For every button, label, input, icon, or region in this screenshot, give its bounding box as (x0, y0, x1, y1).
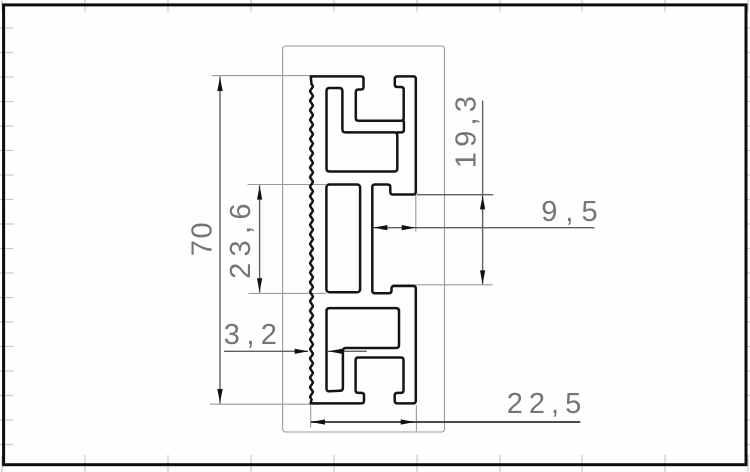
dimension 22,5 extension line right (415, 405, 417, 431)
dimension 22,5 arrow left (311, 419, 325, 424)
profile lower chamber cavity (327, 308, 400, 391)
dimension 3,2 line left part (224, 350, 308, 352)
svg-text:23,6: 23,6 (225, 197, 257, 279)
dimension 19,3 arrow down (480, 270, 485, 284)
dimension 19,3 arrow up (480, 196, 485, 210)
dimension 19,3 line (482, 101, 484, 285)
dimension 23,6 line (259, 185, 261, 293)
dimension 23,6 extension line bottom (249, 292, 327, 294)
svg-text:3,2: 3,2 (224, 319, 284, 351)
spreadsheet grid ticks (decorative) (1, 0, 3, 12)
dimension 9,5 line (373, 227, 594, 229)
svg-text:19,3: 19,3 (451, 91, 483, 168)
dimension 19,3 extension line bottom (392, 284, 493, 286)
dimension 23,6 arrow up (257, 186, 262, 200)
svg-text:22,5: 22,5 (507, 388, 587, 420)
dimension 3,2 arrow left (328, 349, 342, 354)
dimension 70 arrow down (217, 389, 222, 403)
profile upper chamber stub (397, 122, 404, 133)
dimension 70 arrow up (217, 77, 222, 91)
dimension 23,6 arrow down (257, 278, 262, 292)
dimension 3,2 line right part (328, 350, 367, 352)
figure bounding box (283, 46, 445, 432)
dimension 23,6 extension line top (248, 184, 327, 186)
profile middle slot cavity (326, 185, 360, 293)
dimension 70 extension line bottom (210, 403, 319, 405)
svg-text:70: 70 (187, 221, 219, 256)
dimension 9,5 arrow left (374, 225, 388, 230)
dimension 70 extension line top (212, 75, 311, 77)
dimension 22,5 line (311, 421, 580, 423)
dimension 3,2 arrow right (295, 349, 309, 354)
dimension 22,5 arrow right (401, 419, 415, 424)
profile upper chamber cavity (327, 88, 398, 172)
dimension 9,5 arrow right (402, 225, 416, 230)
svg-text:9,5: 9,5 (541, 196, 605, 228)
dimension 19,3 extension line top (417, 194, 493, 196)
dimension 9,5 extension line (415, 195, 417, 232)
dimension 70 line (219, 77, 221, 404)
profile outer contour with knurled left edge (310, 76, 416, 403)
dimension 22,5 extension line left (310, 405, 312, 427)
